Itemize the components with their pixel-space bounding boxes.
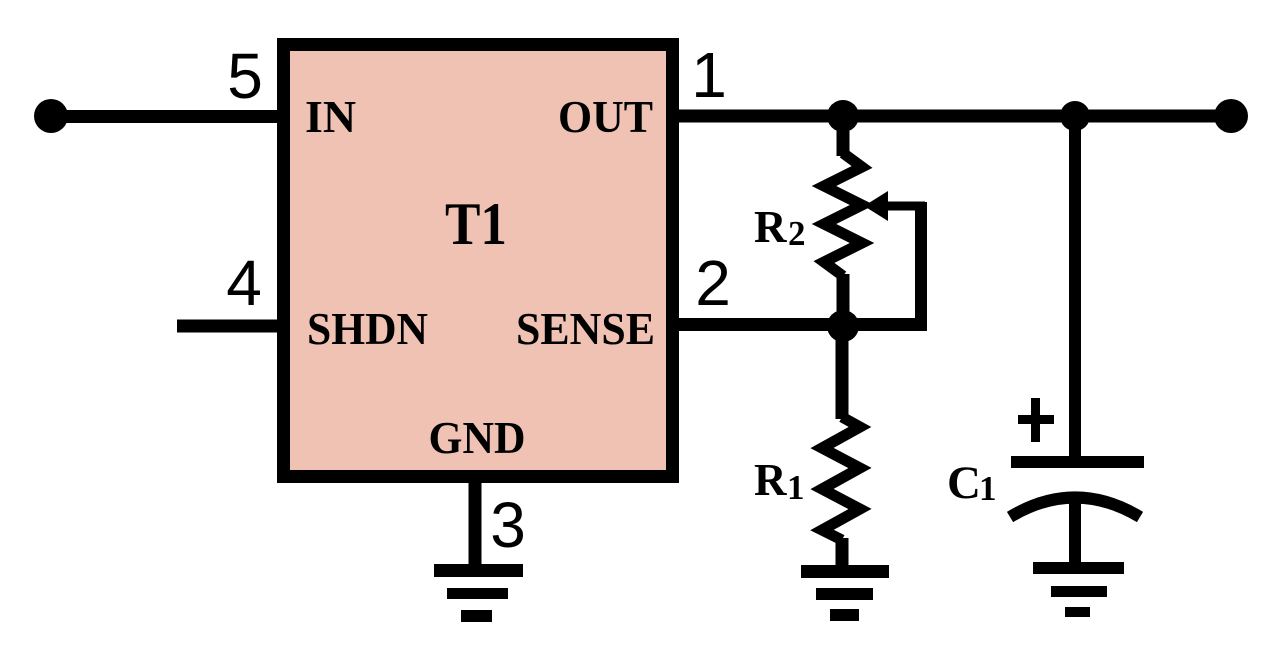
svg-text:1: 1 — [691, 39, 727, 111]
ground: under C1 — [1033, 562, 1124, 617]
wire: OUT node down to C1 top plate — [1069, 116, 1081, 461]
capacitor C1 bottom plate arc — [1010, 498, 1140, 518]
wire: SENSE pin 2 to wiper loop — [675, 318, 927, 331]
R2 wiper loop vertical wire — [915, 202, 927, 331]
node: junction OUT/R2 — [827, 100, 859, 132]
svg-text:R: R — [754, 202, 787, 252]
svg-text:R: R — [754, 455, 787, 505]
svg-text:5: 5 — [227, 40, 263, 112]
capacitor C1 top plate — [1011, 456, 1144, 468]
wire: R2 bottom to SENSE node — [837, 274, 850, 331]
R2 wiper arrowhead — [864, 191, 888, 221]
wire: OUT node down to R2 — [837, 116, 850, 156]
resistor R1 zigzag — [822, 417, 860, 540]
capacitor C1 polarity plus sign — [1018, 398, 1054, 442]
wire: GND pin 3 stub — [469, 480, 482, 568]
ground: under GND pin — [434, 564, 523, 622]
svg-text:1: 1 — [979, 469, 997, 508]
wire: input to IN pin 5 — [48, 110, 281, 123]
svg-text:1: 1 — [787, 468, 805, 507]
node: output terminal dot — [1214, 99, 1248, 133]
potentiometer R2 zigzag — [824, 153, 862, 276]
svg-text:4: 4 — [226, 247, 262, 319]
svg-text:SENSE: SENSE — [516, 303, 655, 354]
wire: R1 to ground — [836, 538, 849, 569]
svg-text:C: C — [947, 457, 981, 509]
node: input terminal dot — [34, 99, 68, 133]
wire: SHDN pin 4 stub — [177, 320, 281, 333]
regulator T1 body — [284, 45, 673, 477]
svg-text:OUT: OUT — [558, 91, 653, 142]
svg-text:IN: IN — [305, 91, 356, 142]
svg-text:T1: T1 — [445, 191, 507, 257]
R2 wiper shaft — [884, 202, 925, 211]
ground: under R1 — [801, 565, 889, 621]
svg-text:2: 2 — [788, 214, 806, 253]
svg-text:2: 2 — [695, 247, 731, 319]
svg-text:3: 3 — [490, 489, 526, 561]
svg-text:GND: GND — [429, 412, 526, 463]
svg-text:SHDN: SHDN — [307, 303, 428, 354]
wire: SENSE node down to R1 — [836, 326, 849, 419]
wire: OUT pin 1 to output terminal — [675, 110, 1232, 123]
wire: C1 bottom plate to ground — [1069, 494, 1081, 568]
node: junction OUT/C1 — [1060, 101, 1090, 131]
node: junction SENSE/R1 — [827, 310, 859, 342]
